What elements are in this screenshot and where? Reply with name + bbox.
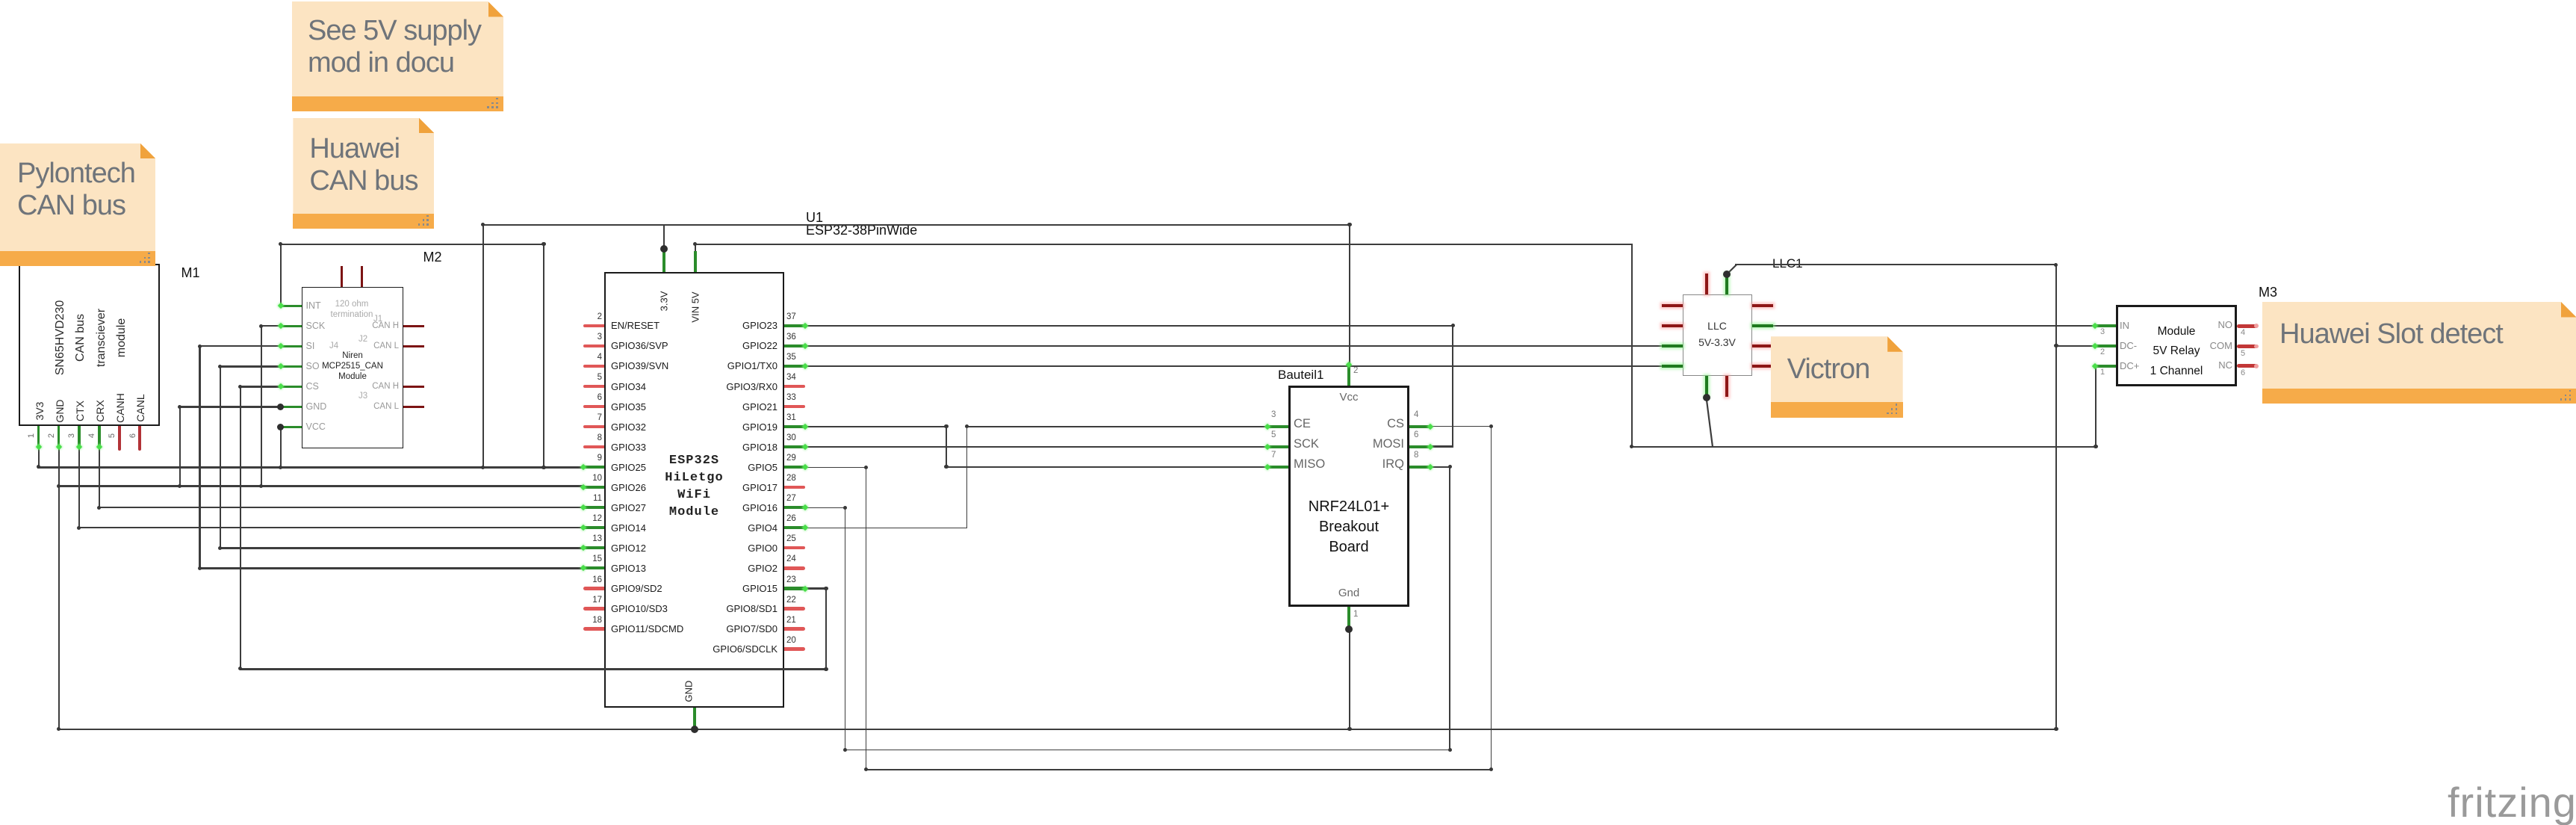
label U1 pin label GPIO6/SDCLK	[713, 643, 778, 655]
pin U1 pin 30 GPIO18	[784, 445, 805, 448]
label U1 pin label GPIO36/SVP	[611, 340, 668, 351]
wire M2 SI drop	[199, 345, 200, 569]
wire M2 SCK wire	[261, 325, 282, 327]
label NRF pin number 1	[1353, 610, 1358, 619]
pin M1 pin 3	[78, 426, 81, 447]
module M1 SN65HVD230 body	[19, 264, 161, 426]
label M3 text 1 Channel	[2150, 365, 2203, 378]
ic LLC1 body	[1683, 294, 1752, 375]
label NRF title NRF24L01+	[1309, 498, 1389, 516]
pin M2 left pin 1	[281, 305, 302, 307]
pin M2 left pin 5	[281, 386, 302, 388]
node bend csr	[1489, 424, 1493, 428]
label U1 pin number 11	[593, 494, 602, 503]
label U1 pin number 18	[592, 616, 602, 625]
ic Bauteil1 NRF24L01 body	[1288, 386, 1409, 607]
pin U1 GND stub	[693, 708, 696, 729]
label U1 text Module	[669, 505, 719, 519]
wire GPIO14 row	[78, 527, 585, 528]
label U1 pin label GPIO14	[611, 522, 646, 534]
label M2 text termination	[331, 310, 373, 319]
node bend vin	[693, 242, 697, 246]
wire CS bottom link	[865, 769, 1492, 770]
label NRF pin label CS	[1387, 417, 1404, 431]
label M3 text Module	[2158, 325, 2196, 339]
pin LLC left pin 4	[1662, 365, 1683, 368]
wire NRF Gnd drop	[1349, 628, 1350, 730]
label M3 pin label NC	[2218, 359, 2232, 371]
pin U1 8 GPIO33	[583, 445, 604, 448]
node bend dcplus	[2094, 445, 2097, 448]
label label M2	[423, 250, 442, 265]
label label M1	[181, 265, 200, 281]
label M2 text J2	[359, 335, 367, 344]
label M1 pin label 3V3	[34, 402, 46, 421]
label NRF text Vcc	[1339, 391, 1358, 404]
label U1 pin label GPIO26	[611, 482, 646, 493]
label watermark fritzing	[2448, 778, 2576, 825]
pin NRF pin MISO	[1267, 466, 1288, 469]
label M3 pin label DC-	[2120, 340, 2137, 351]
wire M1 pin3 drop	[78, 446, 80, 529]
wire 3.3V row / GPIO25 row	[37, 466, 584, 469]
node bend t-dcm	[2054, 344, 2058, 347]
pin M2 CAN pin r4	[403, 386, 424, 388]
label U1 pin label GPIO16	[742, 502, 778, 513]
wire GPIO16 row	[804, 507, 845, 509]
node bend m2top	[541, 242, 545, 246]
junction M2 VCC pin dot	[277, 424, 284, 430]
label M1 text module	[115, 318, 128, 357]
node bend CS	[238, 385, 242, 389]
note Victron	[1771, 336, 1903, 418]
note Huawei CAN bus	[293, 118, 434, 229]
wire GPIO12 row	[220, 547, 585, 549]
label U1 pin label GPIO13	[611, 563, 646, 574]
wire VIN 5V bend	[695, 244, 696, 253]
pin LLC right pin 3	[1752, 344, 1773, 347]
node bend t-sck	[259, 484, 263, 488]
wire MISO link drop	[946, 426, 946, 467]
node bend 5vd	[1630, 445, 1633, 448]
wire 5V link y598	[1631, 446, 2097, 448]
pin U1 3.3V stub	[662, 249, 665, 272]
label label U1	[806, 210, 823, 226]
node bend b-si	[198, 566, 202, 570]
label U1 pin number 30	[786, 433, 796, 442]
label U1 pin label GPIO5	[748, 462, 778, 473]
wire 3.3V ESP drop	[663, 224, 665, 250]
label U1 pin number 17	[592, 596, 602, 605]
pin M2 left pin 4	[281, 365, 302, 368]
label U1 text HiLetgo	[665, 471, 723, 485]
pin U1 34 GPIO3/RX0	[784, 385, 805, 388]
label NRF pin number 3	[1271, 410, 1276, 419]
label M2 text 120ohm	[335, 300, 369, 309]
pin U1 3 GPIO36/SVP	[583, 344, 604, 347]
label U1 pin number 21	[786, 616, 796, 625]
label U1 pin label GPIO27	[611, 502, 646, 513]
wire M2 VCC drop	[280, 426, 282, 468]
label U1 pin label GPIO35	[611, 401, 646, 412]
label U1 pin number 23	[786, 575, 796, 584]
label U1 pin number 9	[598, 454, 602, 463]
pin U1 pin 13 GPIO12	[583, 546, 604, 549]
label M1 pin label GND	[54, 399, 66, 422]
node bend g15t	[824, 587, 828, 590]
label M1 text SN65HVD230	[54, 300, 67, 376]
pin U1 24 GPIO2	[784, 566, 805, 569]
label U1 pin number 10	[592, 474, 602, 483]
wire GPIO27 row	[99, 507, 585, 508]
label U1 pin label GPIO33	[611, 442, 646, 453]
label M1 pin number 1	[27, 433, 36, 438]
label M2 pin label SI	[306, 341, 315, 351]
pin U1 33 GPIO21	[784, 405, 805, 408]
wire M2 CS wire	[240, 386, 282, 387]
node bend GPIO19b	[965, 424, 969, 428]
pin NRF pin Vcc	[1347, 365, 1350, 386]
label M2 text CANH2	[372, 382, 399, 391]
wire GPIO5 row	[804, 467, 866, 468]
wire 3.3V NRF Vcc riser	[1349, 224, 1350, 366]
pin M2 left pin 2	[281, 325, 302, 327]
label M1 text transciever	[95, 309, 108, 367]
label U1 pin label GPIO17	[742, 482, 778, 493]
label U1 pin label GPIO32	[611, 421, 646, 433]
label M1 pin number 5	[108, 433, 117, 438]
label M2 text MCP2515	[322, 362, 383, 371]
wire 5V drop x2184	[1631, 244, 1633, 448]
label NRF pin label CE	[1294, 417, 1311, 431]
pin NRF pin Gnd	[1347, 607, 1350, 628]
pin U1 pin 15 GPIO13	[583, 566, 604, 569]
label M3 pin number 2	[2100, 347, 2105, 356]
node bend mosi	[1451, 324, 1455, 327]
pin U1 pin 9 GPIO25	[583, 466, 604, 469]
label M1 pin label CANH	[114, 394, 126, 424]
label M1 pin label CRX	[94, 400, 106, 422]
module M2 MCP2515 body	[302, 287, 404, 448]
label LLC text LLC	[1707, 320, 1727, 332]
pin M2 CAN pin r5	[403, 406, 424, 408]
label U1 pin number 5	[598, 373, 602, 382]
label U1 pin label VIN5V	[689, 291, 701, 322]
node bend t-int	[541, 466, 545, 469]
wire IRQ bottom link	[845, 750, 1450, 751]
wire CE row	[966, 426, 1268, 427]
label M2 text CANL1	[373, 342, 399, 350]
label M1 pin label CTX	[74, 401, 86, 421]
label U1 pin label GPIO12	[611, 543, 646, 554]
node bend csb2	[1489, 767, 1493, 771]
pin U1 pin 26 GPIO4	[784, 526, 805, 529]
pin U1 22 GPIO8/SD1	[784, 607, 805, 610]
pin M2 CAN pin r2	[403, 345, 424, 347]
label M2 pin label VCC	[306, 421, 326, 432]
pin U1 pin 29 GPIO5	[784, 466, 805, 469]
wire GPIO23 row	[804, 325, 1453, 327]
node bend g15	[824, 667, 828, 671]
ic U1 ESP32 body	[604, 272, 784, 708]
pin M2 CAN pin r1	[403, 325, 424, 327]
node bend p2	[57, 484, 60, 488]
pin U1 pin 31 GPIO19	[784, 425, 805, 428]
label U1 pin label GND	[683, 681, 694, 702]
wire M2 SO drop	[220, 365, 221, 549]
wire TX0-LLC wire	[804, 365, 1662, 367]
label M2 text CANH1	[372, 321, 399, 330]
pin NRF pin SCK	[1267, 445, 1288, 448]
label U1 pin label GPIO18	[742, 442, 778, 453]
label U1 text WiFi	[677, 488, 711, 502]
node bend rail-r	[2054, 727, 2058, 731]
label U1 pin number 31	[786, 413, 796, 422]
pin M1 pin 6 CANL	[138, 426, 141, 451]
label U1 pin number 8	[598, 433, 602, 442]
label U1 pin number 33	[786, 393, 796, 402]
module M3 relay body	[2116, 305, 2238, 386]
label M3 pin number 4	[2241, 328, 2245, 337]
label label M3	[2259, 285, 2277, 300]
label U1 pin number 36	[786, 333, 796, 342]
label M2 text J1	[373, 315, 382, 324]
label U1 pin label EN/RESET	[611, 320, 659, 331]
pin M2 top pin 2	[361, 266, 363, 287]
pin LLC top pin 2	[1725, 274, 1728, 294]
label U1 text ESP32S	[669, 454, 719, 468]
label M2 text Niren	[342, 351, 362, 360]
wire IRQ riser	[1449, 466, 1450, 750]
label U1 pin label GPIO4	[748, 522, 778, 534]
pin M2 left pin 7	[281, 426, 302, 428]
label U1 pin label GPIO39/SVN	[611, 360, 668, 371]
label U1 pin number 37	[786, 312, 796, 321]
junction NRF Gnd junction	[1345, 625, 1353, 633]
pin U1 VIN5V stub	[694, 251, 697, 272]
label M2 text Module	[338, 372, 367, 381]
wire GPIO16 drop	[845, 507, 846, 751]
pin U1 5 GPIO34	[583, 385, 604, 388]
label U1 pin label GPIO34	[611, 381, 646, 392]
node bend p1	[37, 465, 40, 469]
label NRF pin number 8	[1414, 451, 1418, 460]
wire 3.3V riser x646	[482, 224, 484, 469]
wire GPIO19 row	[804, 426, 946, 427]
node bend irqb	[843, 748, 847, 752]
label label ESP32-38PinWide	[806, 223, 917, 238]
note Huawei Slot detect	[2262, 302, 2576, 404]
junction LLC top junction	[1723, 271, 1731, 278]
label U1 pin number 20	[786, 636, 796, 645]
wire M2CS-GPIO15 link	[240, 668, 828, 670]
label U1 pin number 16	[592, 575, 602, 584]
node bend p3	[77, 526, 81, 530]
wire GPIO22-LLC wire	[804, 345, 1662, 347]
label M3 pin number 5	[2241, 349, 2245, 358]
pin U1 2 EN/RESET	[583, 324, 604, 327]
label M2 pin label INT	[306, 300, 321, 311]
wire LLC1 rail	[1735, 264, 2057, 265]
pin LLC top pin 1	[1705, 274, 1708, 294]
label M1 pin number 3	[67, 433, 76, 438]
pin LLC bottom pin 2	[1725, 376, 1728, 397]
label U1 pin number 26	[786, 514, 796, 523]
wire MOSI wire	[1430, 445, 1453, 447]
label NRF pin label MISO	[1294, 457, 1325, 472]
wire 3.3V M1 pin1 drop	[38, 446, 40, 469]
label U1 pin label GPIO1/TX0	[727, 360, 778, 371]
node bend MISO	[944, 465, 948, 469]
label M2 pin label CS	[306, 381, 319, 392]
label U1 pin number 28	[786, 474, 796, 483]
node bend g5	[864, 466, 868, 469]
pin U1 pin 36 GPIO22	[784, 344, 805, 347]
label U1 pin number 15	[592, 554, 602, 563]
pin NRF pin IRQ	[1409, 466, 1430, 469]
wire GPIO15 drop	[825, 587, 827, 670]
pin M2 left pin 6	[281, 406, 302, 408]
wire LLC1 drop x2753	[2055, 264, 2057, 730]
label M2 pin label GND	[306, 401, 327, 412]
node bend irqt	[1448, 465, 1452, 469]
wire LLC-IN wire	[1772, 325, 2096, 327]
label NRF pin number 5	[1271, 430, 1276, 439]
pin U1 20 GPIO6/SDCLK	[784, 647, 805, 650]
label U1 pin number 12	[592, 514, 602, 523]
label U1 pin number 6	[598, 393, 602, 402]
label label LLC1	[1772, 256, 1803, 271]
label M1 pin number 6	[128, 433, 137, 438]
label NRF pin number 6	[1414, 430, 1418, 439]
label M1 text CAN bus	[74, 314, 87, 362]
pin M1 pin 5 CANH	[118, 426, 121, 451]
wire M2 SI wire	[199, 345, 282, 347]
junction LLC bottom junction	[1703, 394, 1710, 401]
pin U1 pin 35 GPIO1/TX0	[784, 365, 805, 368]
pin LLC left pin 2	[1662, 324, 1683, 327]
node bend SCK	[259, 324, 263, 328]
wire GPIO5 drop	[866, 466, 867, 770]
pin M3 pin DC+	[2095, 365, 2116, 368]
wire M1 pin4 drop	[99, 446, 100, 509]
label NRF pin number 7	[1271, 451, 1276, 460]
node bend g16	[843, 506, 847, 510]
label U1 pin label GPIO7/SD0	[726, 623, 778, 634]
label M2 text J4	[329, 342, 338, 350]
label U1 pin number 34	[786, 373, 796, 382]
junction 3.3V junction	[660, 245, 668, 253]
node bend p4	[97, 506, 101, 510]
label U1 pin label GPIO19	[742, 421, 778, 433]
label U1 pin number 2	[598, 312, 602, 321]
pin U1 pin 27 GPIO16	[784, 506, 805, 509]
pin U1 pin 10 GPIO26	[583, 486, 604, 489]
label U1 pin label GPIO22	[742, 340, 778, 351]
label M1 pin number 2	[47, 433, 56, 438]
wire INT drop x728	[543, 244, 544, 469]
label NRF title Breakout	[1319, 519, 1379, 536]
label U1 pin number 24	[786, 554, 796, 563]
label U1 pin label 3.3V	[659, 291, 670, 312]
wire GPIO13 row	[199, 567, 584, 569]
label NRF title Board	[1329, 539, 1368, 556]
label M3 pin label COM	[2210, 340, 2232, 351]
label U1 pin number 7	[598, 413, 602, 422]
label U1 pin number 22	[786, 596, 796, 605]
label M3 text 5V Relay	[2153, 344, 2200, 358]
label M3 pin number 6	[2241, 368, 2245, 377]
pin LLC bottom pin 1	[1705, 376, 1708, 397]
label M3 pin label DC+	[2120, 360, 2139, 371]
label U1 pin label GPIO0	[748, 543, 778, 554]
wire MISO row	[946, 466, 1268, 467]
wire GPIO18-SCK wire	[804, 446, 1269, 448]
label M3 pin label NO	[2218, 319, 2233, 330]
pin U1 6 GPIO35	[583, 405, 604, 408]
wire GND M1 pin2 drop	[58, 446, 60, 730]
node bend nrfv	[1347, 223, 1351, 226]
junction ESP GND junction	[691, 726, 699, 734]
node bend m2cs	[238, 667, 242, 670]
label NRF pin number 2	[1353, 366, 1358, 375]
label M3 pin number 3	[2100, 327, 2105, 336]
node bend llc1	[2054, 263, 2058, 267]
node bend t-vcc	[279, 466, 282, 469]
node bend SO	[218, 365, 222, 368]
junction M2 GND pin dot	[277, 404, 284, 410]
wire CS riser	[1491, 426, 1492, 770]
pin M3 NO	[2237, 324, 2258, 328]
pin M2 left pin 3	[281, 345, 302, 347]
node bend irqb2	[1448, 748, 1452, 752]
label U1 pin number 3	[598, 333, 602, 342]
node bend csb	[864, 767, 868, 771]
wire M2 SO wire	[220, 365, 282, 367]
wire 3.3V top rail	[482, 224, 1351, 226]
label U1 pin number 25	[786, 534, 796, 543]
node bend top-l	[481, 223, 485, 226]
node bend t-nrfgnd	[1347, 727, 1351, 731]
pin LLC right pin 1	[1752, 304, 1773, 307]
pin U1 28 GPIO17	[784, 486, 805, 489]
pin U1 pin 12 GPIO14	[583, 526, 604, 529]
label M2 pin label SO	[306, 361, 320, 371]
label NRF pin number 4	[1414, 410, 1418, 419]
label U1 pin label GPIO15	[742, 583, 778, 594]
pin NRF pin CS	[1409, 425, 1430, 428]
note See 5V supply	[292, 1, 503, 111]
wire CS wire	[1430, 426, 1492, 427]
pin U1 21 GPIO7/SD0	[784, 627, 805, 630]
pin M3 pin IN	[2095, 324, 2116, 327]
label U1 pin number 35	[786, 353, 796, 362]
node bend GNDm2	[178, 405, 181, 409]
pin M3 COM	[2237, 344, 2258, 348]
pin U1 18 GPIO11/SDCMD	[583, 627, 604, 630]
pin NRF pin CE	[1267, 425, 1288, 428]
label U1 pin number 4	[598, 353, 602, 362]
label M1 pin number 4	[87, 433, 96, 438]
label M1 pin label CANL	[134, 395, 146, 422]
wire DC+ riser	[2095, 365, 2097, 448]
wire M2 GND drop	[179, 406, 181, 487]
label NRF pin label IRQ	[1382, 457, 1404, 472]
label U1 pin label GPIO10/SD3	[611, 603, 668, 614]
label U1 pin label GPIO11/SDCMD	[611, 623, 683, 634]
wire DC- wire	[2055, 345, 2095, 347]
node bend t-gnd	[178, 484, 181, 488]
